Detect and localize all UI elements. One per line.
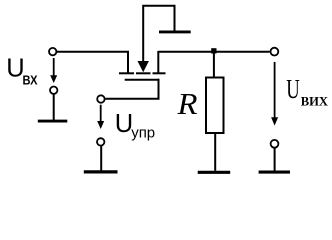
label Uвих: [286, 73, 328, 109]
wire resistor to ground: [214, 134, 216, 171]
node input terminal (Uвх): [49, 48, 56, 55]
ground (under resistor): [198, 171, 231, 174]
voltage arrow Uупр: [97, 105, 104, 129]
svg-text:ВИХ: ВИХ: [301, 94, 329, 109]
junction node (source / R / output): [211, 48, 216, 53]
voltage arrow Uвих: [271, 62, 278, 126]
svg-text:R: R: [176, 87, 197, 121]
node Uупр ground-side terminal: [97, 138, 104, 145]
ground (top, substrate): [159, 30, 191, 33]
resistor R: [206, 78, 224, 134]
node Uвих ground-side terminal: [271, 140, 279, 148]
node Uвх ground-side terminal: [50, 87, 57, 94]
ground (input side): [38, 120, 68, 123]
svg-text:U: U: [286, 73, 300, 104]
ground (output side): [259, 171, 290, 174]
wire Uупр terminal to ground: [100, 146, 102, 171]
wire input terminal to MOSFET drain: [57, 51, 129, 53]
svg-text:ВХ: ВХ: [23, 73, 38, 88]
wire Uвих terminal to ground: [274, 148, 276, 171]
wire MOSFET source to output: [158, 51, 269, 53]
wire substrate to top ground: [143, 6, 174, 62]
node gate terminal (Uупр): [97, 95, 104, 102]
label Uвх: [6, 55, 37, 88]
label Uупр: [115, 110, 155, 142]
svg-text:упр: упр: [131, 125, 155, 142]
wire Uвх terminal to ground: [53, 94, 55, 120]
voltage arrow Uвх: [50, 58, 57, 83]
wire junction to resistor: [213, 52, 215, 78]
wire gate lead: [105, 80, 159, 99]
node output terminal (Uвих): [271, 48, 279, 56]
transistor MOSFET (depletion, with substrate arrow): [119, 51, 166, 80]
ground (control side): [84, 170, 118, 173]
